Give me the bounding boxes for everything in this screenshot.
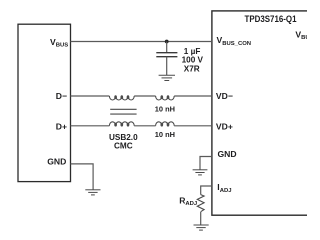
svg-text:1 µF: 1 µF (184, 47, 201, 56)
svg-text:GND: GND (47, 157, 66, 167)
wire GND (connector) (71, 164, 94, 190)
wire C1 bottom lead (166, 57, 168, 75)
inductor L1b CMC bottom winding (109, 122, 134, 126)
ground (RADJ) (194, 225, 209, 230)
node junction VBUS/C1 (165, 40, 169, 44)
inductor FB1 10nH (156, 96, 175, 100)
wire D- segment 3 (174, 95, 212, 97)
wire RADJ bottom lead (200, 212, 202, 225)
ground (C1) (159, 75, 175, 80)
wire D- segment 1 (71, 95, 110, 97)
svg-text:VD+: VD+ (216, 122, 233, 132)
USB connector box J1 (18, 24, 71, 181)
wire GND (U1) (200, 157, 212, 170)
ground (connector GND) (85, 190, 100, 195)
svg-text:10 nH: 10 nH (155, 104, 175, 113)
ground (U1 GND) (193, 170, 208, 175)
inductor FB2 cusp loops (161, 123, 169, 126)
resistor RADJ (197, 195, 204, 212)
capacitor C1 1uF (156, 53, 177, 57)
inductor L1a cusp loops (115, 96, 129, 99)
inductor L1a CMC top winding (109, 96, 134, 100)
svg-text:VD−: VD− (216, 91, 233, 101)
svg-text:100 V: 100 V (182, 56, 204, 65)
wire D+ segment 2 (134, 125, 155, 127)
svg-text:10 nH: 10 nH (155, 130, 175, 139)
svg-text:D+: D+ (56, 122, 67, 132)
inductor FB2 10nH (156, 122, 175, 126)
inductor L1b cusp loops (115, 123, 129, 126)
wire VBUS net (71, 41, 212, 43)
inductor FB1 cusp loops (161, 96, 169, 99)
svg-text:GND: GND (218, 149, 237, 159)
svg-text:X7R: X7R (184, 64, 200, 73)
wire IADJ (201, 186, 212, 195)
svg-text:TPD3S716-Q1: TPD3S716-Q1 (245, 14, 297, 24)
wire D+ segment 1 (71, 125, 110, 127)
wire C1 top lead (166, 42, 168, 53)
svg-text:CMC: CMC (114, 142, 133, 151)
wire D- segment 2 (134, 95, 155, 97)
svg-text:D−: D− (56, 91, 67, 101)
op-amp U1 TPD3S716-Q1 box (212, 11, 320, 215)
CMC core lines (110, 109, 136, 114)
wire D+ segment 3 (174, 125, 212, 127)
